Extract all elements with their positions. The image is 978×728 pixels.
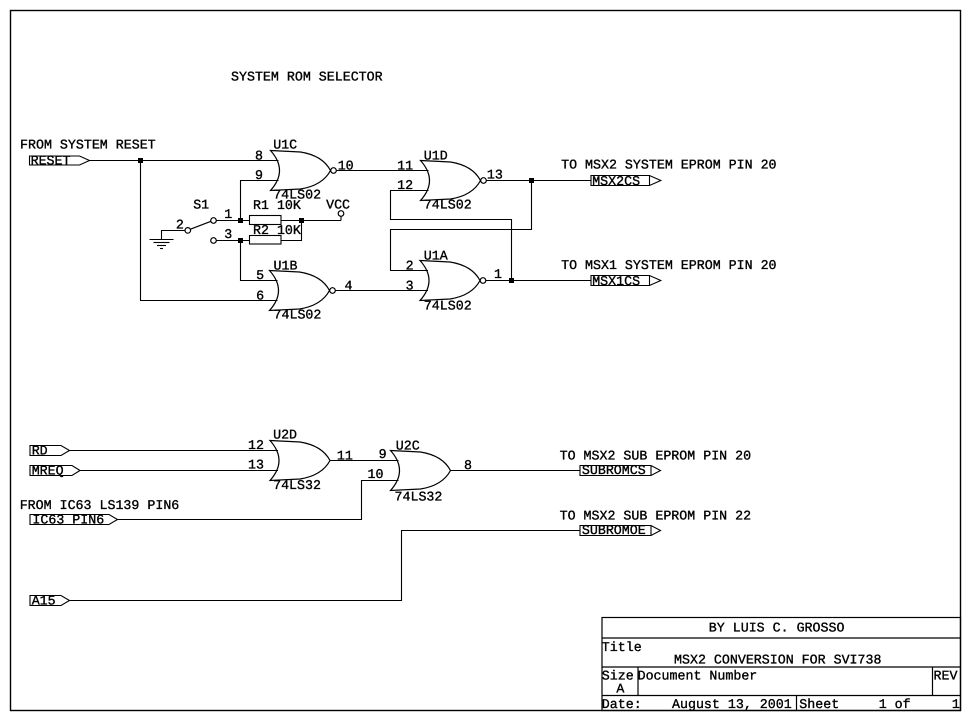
port SUBROMCS: [580, 463, 661, 478]
svg-text:74LS32: 74LS32: [273, 478, 321, 493]
port RESET: [30, 153, 90, 168]
svg-text:FROM SYSTEM RESET: FROM SYSTEM RESET: [20, 137, 156, 152]
svg-text:3: 3: [224, 227, 232, 242]
svg-text:74LS02: 74LS02: [274, 307, 322, 322]
svg-text:13: 13: [248, 458, 264, 473]
wire MREQ to U2D pin 13: [80, 470, 278, 472]
wire A15 to SUBROMOE: [70, 531, 581, 601]
svg-text:FROM IC63 LS139 PIN6: FROM IC63 LS139 PIN6: [20, 498, 180, 513]
wire U2D output to U2C pin 9: [330, 460, 399, 462]
port MSX1CS: [591, 274, 661, 289]
svg-text:IC63 PIN6: IC63 PIN6: [32, 512, 104, 527]
svg-text:Document Number: Document Number: [638, 668, 758, 683]
wire RESET net down to U1B pin 6: [141, 161, 278, 301]
svg-text:A: A: [616, 681, 624, 696]
port MSX2CS: [591, 174, 661, 189]
port RD: [30, 443, 70, 458]
svg-text:REV: REV: [934, 668, 958, 683]
svg-text:S1: S1: [193, 198, 209, 213]
title block: [602, 618, 961, 711]
U1D output bubble: [481, 178, 487, 184]
svg-text:R1 10K: R1 10K: [253, 198, 301, 213]
wire U1D output feedback to U1A pin 2: [391, 181, 532, 271]
svg-text:MREQ: MREQ: [32, 463, 64, 478]
wire node 3 to U1B pin 5: [241, 241, 278, 281]
svg-text:8: 8: [255, 149, 263, 164]
wire U2C output to SUBROMCS: [451, 470, 581, 472]
svg-text:U1A: U1A: [424, 248, 448, 263]
svg-text:Sheet: Sheet: [799, 697, 839, 712]
svg-text:Title: Title: [602, 640, 642, 655]
svg-text:74LS02: 74LS02: [424, 298, 472, 313]
wire R2 to VCC node: [281, 221, 302, 241]
OR gate U2D: [270, 441, 330, 481]
wire R1 to VCC node: [281, 220, 341, 222]
wire U1D output to MSX2CS: [487, 180, 592, 182]
svg-text:U1B: U1B: [274, 259, 298, 274]
U1B output bubble: [330, 288, 336, 294]
svg-text:1: 1: [224, 207, 232, 222]
port A15: [30, 593, 70, 608]
svg-text:TO MSX2 SUB EPROM PIN 22: TO MSX2 SUB EPROM PIN 22: [560, 509, 752, 524]
svg-text:Date:: Date:: [602, 697, 642, 712]
wire U1C out to U1D pin 11: [336, 170, 429, 172]
svg-text:SUBROMCS: SUBROMCS: [582, 463, 646, 478]
svg-text:MSX2CS: MSX2CS: [592, 174, 640, 189]
svg-text:U2D: U2D: [273, 428, 297, 443]
svg-text:11: 11: [337, 448, 353, 463]
wire U1C pin 9 to switch node: [241, 181, 279, 221]
svg-text:11: 11: [397, 159, 413, 174]
U1C output bubble: [331, 168, 337, 174]
svg-text:TO MSX1 SYSTEM EPROM PIN 20: TO MSX1 SYSTEM EPROM PIN 20: [561, 258, 776, 273]
ground: [150, 240, 174, 249]
junction node 1: [238, 218, 243, 223]
port SUBROMOE: [580, 523, 661, 538]
svg-text:R2 10K: R2 10K: [253, 223, 301, 238]
switch S1: [185, 218, 216, 244]
svg-text:1 of: 1 of: [879, 697, 911, 712]
wire IC63 PIN6 to U2C pin 10: [118, 481, 399, 520]
svg-text:10: 10: [368, 467, 384, 482]
svg-text:2: 2: [406, 258, 414, 273]
svg-text:1: 1: [952, 697, 960, 712]
svg-text:BY LUIS C. GROSSO: BY LUIS C. GROSSO: [709, 621, 845, 636]
port IC63 PIN6: [30, 512, 118, 527]
junction U1D output: [529, 178, 534, 183]
svg-text:MSX2 CONVERSION FOR SVI738: MSX2 CONVERSION FOR SVI738: [674, 652, 881, 667]
junction node 3: [238, 238, 243, 243]
junction VCC node: [299, 218, 304, 223]
svg-text:U2C: U2C: [396, 438, 420, 453]
svg-text:9: 9: [379, 447, 387, 462]
junction U1A output: [509, 278, 514, 283]
svg-text:RD: RD: [32, 443, 48, 458]
NOR gate U1C: [271, 151, 331, 191]
svg-text:SUBROMOE: SUBROMOE: [582, 523, 646, 538]
svg-text:74LS02: 74LS02: [424, 197, 472, 212]
port MREQ: [30, 463, 80, 478]
svg-text:U1D: U1D: [424, 149, 448, 164]
svg-text:74LS32: 74LS32: [395, 489, 443, 504]
OR gate U2C: [391, 451, 451, 491]
svg-text:RESET: RESET: [31, 153, 71, 168]
wire RESET to U1C pin 8: [90, 160, 279, 162]
NOR gate U1B: [270, 271, 330, 311]
svg-text:10: 10: [338, 159, 354, 174]
svg-text:4: 4: [345, 279, 353, 294]
NOR gate U1D: [421, 161, 481, 201]
resistor R1: [250, 216, 282, 225]
svg-text:VCC: VCC: [326, 197, 350, 212]
junction on RESET net: [138, 158, 143, 163]
svg-text:A15: A15: [32, 593, 56, 608]
resistor R2: [250, 236, 282, 245]
svg-text:TO MSX2 SUB EPROM PIN 20: TO MSX2 SUB EPROM PIN 20: [560, 449, 752, 464]
svg-text:5: 5: [256, 268, 264, 283]
wire RD to U2D pin 12: [70, 450, 279, 452]
svg-text:SYSTEM ROM SELECTOR: SYSTEM ROM SELECTOR: [231, 69, 383, 84]
wire S1 common to ground: [162, 231, 186, 240]
svg-text:MSX1CS: MSX1CS: [592, 274, 640, 289]
wire U1D pin 12 feedback from U1A output: [391, 191, 512, 281]
wire U1B output to U1A pin 3: [335, 290, 428, 292]
wire U1A output to MSX1CS: [486, 280, 592, 282]
wire S1 pin 1 to R1: [216, 220, 250, 222]
svg-text:August 13, 2001: August 13, 2001: [672, 697, 792, 712]
svg-text:6: 6: [256, 288, 264, 303]
svg-text:12: 12: [248, 438, 264, 453]
svg-text:TO MSX2 SYSTEM EPROM PIN 20: TO MSX2 SYSTEM EPROM PIN 20: [561, 158, 776, 173]
wire S1 pin 3 to R2: [216, 240, 250, 242]
NOR gate U1A: [420, 261, 480, 301]
VCC supply: [338, 211, 344, 221]
U1A output bubble: [480, 278, 486, 284]
svg-text:U1C: U1C: [273, 138, 297, 153]
